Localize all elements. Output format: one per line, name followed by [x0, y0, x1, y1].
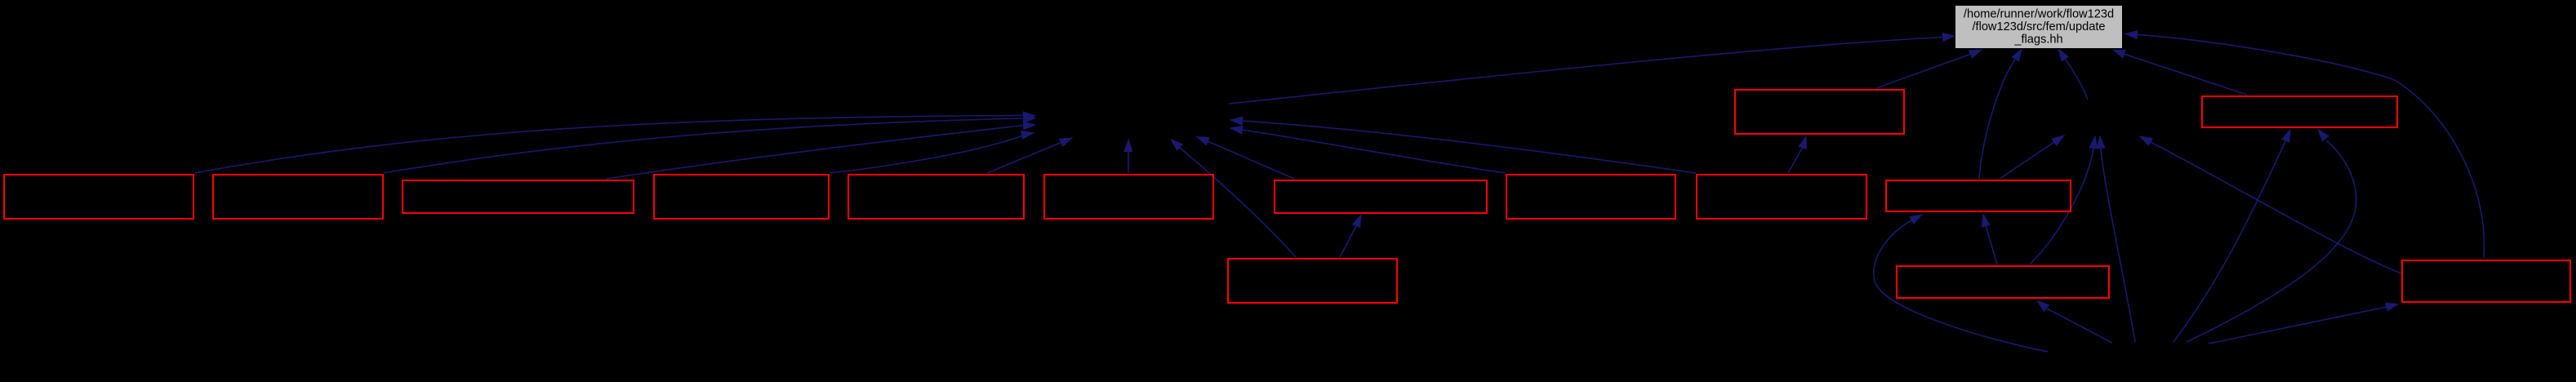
- edge T1 to update_flags.hh: [1876, 50, 1982, 88]
- edge L1 to fe_values node: [1171, 140, 1296, 257]
- edge R to update_flags.hh: [2125, 31, 2485, 257]
- edge fe_system node to L2: [2037, 301, 2112, 344]
- edge N7 to fe_values node: [1197, 137, 1294, 180]
- edge N5 to fe_values node: [987, 138, 1072, 173]
- edge N10 to fe_values node: [1230, 117, 1696, 173]
- edge fe_system node b to T2: [2173, 130, 2290, 342]
- svg-text:/home/runner/work/flow123d: /home/runner/work/flow123d: [1964, 8, 2114, 21]
- edge eigen node to update_flags.hh: [2058, 49, 2088, 100]
- edge N1 to fe_values node: [194, 112, 1035, 173]
- node T2: [2202, 96, 2397, 127]
- edge N4 to fe_values node: [830, 131, 1034, 173]
- svg-text:/flow123d/src/fem/update: /flow123d/src/fem/update: [1972, 20, 2105, 33]
- edge N11 to eigen node: [2000, 135, 2064, 179]
- node T1: [1735, 90, 1904, 134]
- edge N11 to update_flags.hh: [1979, 49, 2022, 179]
- edge N3 to fe_values node: [606, 122, 1035, 179]
- node N7: [1275, 180, 1487, 213]
- node L1: [1228, 259, 1397, 303]
- edge fe_system node to N11: [1874, 215, 2048, 352]
- node N9: [1506, 175, 1675, 219]
- node N3: [403, 180, 634, 213]
- edge fe_system node to eigen node: [2097, 136, 2135, 342]
- node N11: [1886, 180, 2071, 211]
- edge R to eigen node: [2140, 136, 2401, 273]
- node N2: [213, 175, 383, 219]
- edge L2 to N11: [1982, 215, 1997, 265]
- edge L1 to N7: [1340, 215, 1361, 258]
- edge T2 to update_flags.hh: [2113, 50, 2247, 95]
- edge N9 to fe_values node: [1230, 126, 1506, 173]
- edge N6 to fe_values node: [1124, 140, 1132, 173]
- node update_flags.hh (current file): [1955, 6, 2123, 49]
- node L2: [1897, 266, 2109, 298]
- edge fe_system node b to R: [2209, 303, 2398, 344]
- edge fe_values node to update_flags.hh: [1229, 33, 1955, 104]
- edge N10 to T1: [1788, 136, 1806, 173]
- node N1: [4, 175, 194, 219]
- edge fe_system node b to T2 second: [2187, 130, 2356, 343]
- node N10: [1697, 175, 1866, 219]
- node N5: [848, 175, 1024, 219]
- node N6: [1044, 175, 1213, 219]
- edge L2 to eigen node: [2030, 136, 2098, 264]
- edge N2 to fe_values node: [384, 114, 1035, 173]
- node N4: [654, 175, 829, 219]
- node R: [2402, 260, 2570, 302]
- svg-text:_flags.hh: _flags.hh: [2013, 33, 2062, 47]
